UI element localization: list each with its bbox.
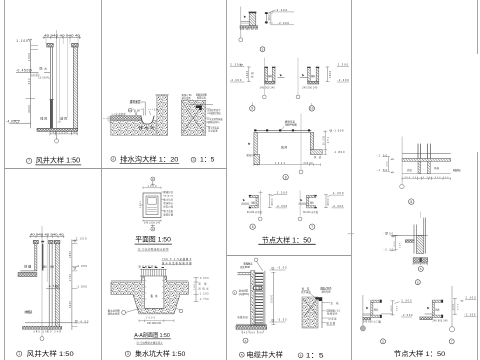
P7a node circle: [400, 184, 404, 188]
P6 boxed label: [254, 286, 262, 289]
svg-text:40 940 40 940 40: 40 940 40 940 40: [44, 33, 81, 37]
P2 title circle 3: [191, 157, 196, 162]
P7d left arm stipple: [420, 317, 433, 320]
P2 slope leader lines: [136, 111, 150, 115]
svg-text:6: 6: [420, 267, 422, 271]
svg-text:-0.050: -0.050: [199, 278, 210, 280]
P3e right wall: [256, 198, 258, 206]
svg-text:6: 6: [300, 354, 302, 358]
P3a right bracket vline: [265, 12, 267, 24]
P7 label circle 5 mid: [415, 280, 420, 285]
P3c U channel walls: [308, 67, 311, 81]
svg-text:风井: 风井: [434, 166, 440, 170]
svg-text:2.300: 2.300: [333, 191, 344, 195]
svg-text:-0.05: -0.05: [277, 267, 287, 270]
P5b grate bolts: [143, 267, 164, 269]
svg-text:排风: 排风: [40, 116, 47, 121]
P3d annotation leader: [281, 127, 284, 131]
P6b stipple block: [302, 297, 318, 328]
svg-text:5500: 5500: [270, 294, 273, 303]
P3c right U-channel left-floor line: [300, 77, 308, 79]
P2 extra leader: [134, 109, 144, 116]
svg-text:爬梯做法: 爬梯做法: [244, 261, 254, 265]
sheet border right upper: [477, 0, 479, 54]
P3f left wall: [307, 198, 309, 206]
P1 right wall hatched: [73, 47, 77, 130]
P3f A arrow: [300, 199, 302, 201]
P3d top beam squares: [254, 129, 310, 131]
svg-text:风井大样 1:50: 风井大样 1:50: [36, 156, 81, 165]
P3b left label circle: [250, 106, 255, 111]
P7c box left wall: [371, 302, 373, 315]
P7c left arm lines: [363, 313, 371, 315]
P6 ladder: [255, 272, 263, 325]
svg-text:6: 6: [252, 225, 254, 229]
svg-text:-1.500: -1.500: [333, 129, 344, 133]
svg-text:5: 5: [417, 281, 419, 285]
svg-text:-1.200: -1.200: [199, 294, 210, 296]
P5 inner square: [146, 196, 158, 215]
svg-text:抹防水砂浆: 抹防水砂浆: [108, 312, 121, 316]
svg-text:8: 8: [410, 200, 412, 204]
P7b label circle 6: [418, 266, 423, 271]
P4 partition dark: [42, 244, 44, 271]
P2 floor stipple band: [111, 120, 157, 135]
P7d box bottom bar: [432, 315, 442, 318]
svg-text:风井: 风井: [281, 146, 287, 150]
P5 section marker A bottom: [151, 225, 155, 227]
svg-text:2.300: 2.300: [466, 297, 477, 300]
svg-text:1.100: 1.100: [16, 39, 28, 43]
sheet border right lower: [477, 152, 479, 360]
P7a slab second line: [402, 158, 451, 160]
P1 mid tick: [26, 98, 35, 100]
P7d long vline: [451, 286, 453, 326]
P3e A arrow: [243, 199, 245, 201]
svg-text:-2.300: -2.300: [332, 204, 344, 208]
P7a slab hatch band: [402, 159, 451, 162]
P3f label circle 7: [310, 224, 315, 229]
P7d box left wall: [432, 302, 434, 315]
P7d dim vline: [454, 298, 456, 315]
P5 inner top rect: [148, 198, 156, 205]
P3a leader circle: [239, 38, 243, 42]
svg-text:700 X 1.5米钢箅子: 700 X 1.5米钢箅子: [162, 257, 192, 261]
P2b diagonals: [183, 103, 205, 134]
svg-text:600: 600: [394, 241, 396, 247]
svg-text:450: 450: [28, 78, 31, 85]
P3e left small node box top bar: [249, 195, 258, 197]
svg-text:A: A: [152, 177, 154, 181]
divider v2: [226, 0, 228, 360]
svg-text:88J8-56: 88J8-56: [164, 195, 174, 197]
P2b cover top line: [188, 103, 213, 105]
svg-text:2.300: 2.300: [401, 299, 412, 302]
P6 right wall line: [264, 271, 266, 326]
P7a wall pair 1 above: [417, 144, 419, 159]
P7c A arrow: [366, 307, 369, 310]
svg-text:8: 8: [285, 175, 287, 179]
P3b left dim vline: [248, 66, 250, 82]
svg-text:20, 3.20: 20, 3.20: [324, 135, 326, 145]
P3a floor hatch band: [240, 26, 258, 28]
P5 top dim: [143, 187, 161, 189]
P6b leader: [310, 294, 316, 299]
svg-text:1：5: 1：5: [306, 352, 324, 359]
svg-text:1：5: 1：5: [200, 157, 215, 164]
P3b left U caps: [265, 67, 268, 68]
P1 title underline: [35, 164, 81, 166]
P5 inner comb: [147, 208, 157, 212]
svg-text:4600: 4600: [272, 198, 274, 206]
svg-text:4600: 4600: [328, 198, 330, 206]
P5 right annotation rows: [161, 191, 164, 193]
svg-text:240 500 240: 240 500 240: [260, 88, 276, 90]
svg-text:-1.80: -1.80: [377, 169, 388, 172]
P7a slab top line: [402, 153, 451, 155]
svg-text:-2.10: -2.10: [384, 249, 394, 252]
svg-text:-1.750: -1.750: [199, 299, 210, 301]
P3f top bar: [307, 195, 316, 197]
svg-text:夹层: 夹层: [407, 168, 413, 172]
P6b black notch: [315, 297, 322, 301]
P2 channel bottom: [144, 122, 151, 125]
P3a label circle 5: [260, 47, 265, 52]
svg-text:3: 3: [127, 352, 129, 356]
svg-text:排烟: 排烟: [24, 264, 31, 269]
svg-text:7: 7: [451, 340, 453, 344]
P7c right floor line: [381, 313, 392, 315]
svg-text:1750: 1750: [69, 273, 72, 281]
P4 right wall hatched: [55, 244, 59, 327]
P1 level -0.450 line: [16, 72, 39, 74]
P7d dark caps: [441, 300, 443, 303]
svg-text:-2.300: -2.300: [337, 78, 349, 82]
P1 bottom slab: [37, 128, 78, 131]
P2 title circle 2: [111, 157, 116, 162]
P1 dim tick a: [31, 45, 38, 47]
P4 base top line: [25, 322, 72, 324]
P6 left wall stippled: [251, 271, 255, 328]
P3c label circle: [309, 106, 314, 111]
svg-text:-1.500: -1.500: [76, 284, 88, 288]
P3e bottom bar: [249, 206, 258, 208]
svg-text:-2.300: -2.300: [464, 313, 476, 316]
svg-text:i=1: i=1: [139, 109, 144, 111]
P7d box top bar: [432, 300, 442, 302]
P3d box top edge: [254, 130, 311, 132]
P7d left arm: [425, 313, 433, 315]
P2 annotation leader: [141, 102, 145, 116]
svg-text:注:①坑内壁抹防水砂浆: 注:①坑内壁抹防水砂浆: [138, 247, 169, 251]
P6 top leader circle: [254, 258, 258, 262]
svg-text:2.300: 2.300: [277, 8, 288, 12]
svg-text:1500: 1500: [27, 53, 31, 61]
P3b left U channel walls: [265, 67, 268, 81]
P5b concrete tub: [111, 276, 188, 314]
svg-text:风井大样 1:50: 风井大样 1:50: [27, 349, 74, 358]
P1 interior line a tick: [58, 121, 61, 123]
P7a center line: [401, 137, 403, 185]
svg-text:防火: 防火: [40, 65, 48, 70]
P1 partition top tick: [49, 98, 54, 100]
P5 left tick: [140, 204, 144, 206]
P7b break mark: [392, 236, 395, 237]
P7b floor line: [391, 234, 428, 236]
svg-text:i=1: i=1: [148, 109, 153, 111]
P3e left arm lines: [241, 202, 249, 204]
svg-text:-5.55: -5.55: [277, 318, 287, 321]
P5 plan title underline: [135, 243, 172, 245]
svg-text:9: 9: [251, 107, 253, 111]
P3c dim vline: [327, 66, 329, 82]
svg-text:2650: 2650: [69, 250, 72, 258]
svg-text:600: 600: [457, 303, 459, 310]
P4 bottom dim ticks: [37, 330, 61, 333]
P1 interior line b: [67, 38, 69, 118]
P5b right dim stack: [195, 277, 197, 302]
P1 level 1.100 mark: [28, 39, 31, 42]
svg-text:排水沟大样 1：20: 排水沟大样 1：20: [120, 154, 179, 163]
P2 left dim small: [109, 116, 111, 124]
P3f bottom bar: [307, 206, 316, 208]
P3d bottom dim: [254, 164, 321, 166]
svg-text:2: 2: [112, 157, 114, 161]
P3a wall hatched: [249, 12, 256, 25]
P4 second line: [46, 237, 48, 282]
svg-text:电缆井大样: 电缆井大样: [246, 350, 283, 359]
P7a wall pair 2 above: [426, 144, 428, 159]
svg-text:300 300: 300 300: [414, 262, 428, 264]
sheet border left: [4, 0, 6, 360]
svg-text:900 240 60 240 900 240: 900 240 60 240 900 240: [405, 177, 450, 179]
svg-text:防水砂浆: 防水砂浆: [239, 288, 249, 292]
divider v1: [101, 0, 103, 360]
P4 center line: [41, 226, 43, 336]
P7c left arm stipple: [363, 317, 371, 320]
svg-text:-1.50: -1.50: [384, 233, 394, 236]
P4 partition cap mark: [41, 241, 44, 243]
P3a floor lines left: [241, 21, 249, 23]
P5 bottom dim: [143, 220, 161, 222]
P4 right dim ticks: [72, 241, 78, 327]
svg-text:电缆夹层: 电缆夹层: [237, 315, 248, 319]
svg-text:240 600 240: 240 600 240: [242, 331, 264, 334]
P7c gray node circle: [360, 326, 365, 331]
svg-text:4600: 4600: [269, 14, 271, 21]
P4 title circle: [17, 351, 22, 356]
svg-text:排烟道: 排烟道: [24, 309, 32, 314]
P4 top dim ticks: [31, 235, 64, 238]
P1 bottom dim ticks: [50, 133, 78, 136]
P6 left annotation circle: [233, 291, 237, 295]
P4 top dim line: [29, 236, 65, 238]
P5b slab finish lines: [111, 280, 142, 282]
svg-text:注:①坑壁防水做法同上: 注:①坑壁防水做法同上: [137, 341, 164, 345]
P1 level -4.05 line: [9, 122, 31, 124]
svg-text:-1.800: -1.800: [333, 150, 345, 154]
divider h1: [5, 168, 227, 170]
P5b right small circle: [179, 309, 183, 313]
svg-text:C0.000AL: C0.000AL: [38, 77, 51, 80]
svg-text:2.200: 2.200: [76, 237, 87, 241]
P7a label circle 8: [409, 199, 414, 204]
P3b left center line + node: [263, 58, 265, 95]
P2b black angle: [196, 105, 202, 110]
svg-text:3450: 3450: [69, 300, 72, 308]
svg-text:(内掺5%): (内掺5%): [239, 292, 250, 296]
svg-text:建筑面层: 建筑面层: [130, 99, 141, 104]
P3d left wall hatch: [254, 133, 257, 155]
P6b right leaders: [322, 301, 330, 303]
svg-text:角钢∠50×5: 角钢∠50×5: [320, 286, 332, 290]
P3a dim vline: [270, 13, 272, 24]
P3d right dim vline: [324, 131, 326, 155]
P2 channel left edge: [141, 116, 144, 124]
P5b grate: [140, 268, 167, 270]
P1 left wall lines: [49, 47, 51, 128]
P1 right wall cap: [72, 43, 79, 47]
svg-text:4: 4: [245, 339, 247, 343]
P7b wall pair tall: [423, 218, 425, 254]
P6 label circle 4: [243, 338, 248, 343]
svg-text:4600: 4600: [453, 303, 455, 310]
P6 base lines: [236, 323, 267, 325]
divider v3: [351, 0, 353, 360]
svg-text:240 500 240: 240 500 240: [302, 88, 318, 90]
P7d label circle 7: [449, 339, 454, 344]
P1 top dim line: [43, 37, 82, 39]
P3f vline + node: [299, 191, 301, 216]
P3d right arm hatch: [310, 150, 322, 155]
svg-text:集水坑盖板配筋详图: 集水坑盖板配筋详图: [162, 261, 192, 265]
P1 level -4.05 mark: [15, 120, 20, 123]
P7d A arrow: [427, 307, 430, 310]
svg-text:240 60: 240 60: [304, 163, 314, 165]
P2 title underline: [120, 162, 180, 164]
P1 center line: [56, 30, 58, 140]
P4 left step lines: [20, 270, 34, 272]
P3a A arrow: [244, 16, 246, 19]
P7c box bottom bar: [371, 315, 382, 318]
P2b right leaders and texts: [206, 108, 211, 110]
P7a left dim vline: [388, 157, 390, 172]
P3f dim vline: [325, 194, 327, 208]
P2 stipple top ticks: [155, 94, 169, 96]
svg-text:-2.300: -2.300: [276, 204, 288, 208]
P3e dim vline: [269, 194, 271, 208]
P7a bottom dim: [402, 178, 451, 180]
P3d right wall hatch: [310, 133, 313, 150]
P3e dark caps: [249, 195, 251, 196]
P4 right dim line: [71, 240, 73, 331]
P1 node circle: [55, 139, 59, 143]
P1 level -0.450 mark: [29, 70, 32, 73]
P3f right small node arm lines: [299, 202, 307, 204]
svg-text:7: 7: [28, 159, 30, 163]
P3a level 2.300: [268, 10, 276, 14]
svg-text:风井: 风井: [268, 74, 273, 78]
P7b wall hatch below: [417, 236, 424, 254]
svg-text:详见 88J8: 详见 88J8: [240, 265, 251, 269]
svg-text:150: 150: [108, 116, 110, 122]
P7c dark caps: [380, 300, 382, 303]
P6 left arm slab: [237, 271, 250, 273]
svg-text:1150: 1150: [194, 283, 196, 290]
P3d A arrow left: [248, 143, 251, 146]
P7a walls below slab hatched: [418, 161, 421, 173]
P7d open node circle: [449, 327, 454, 332]
svg-text:4600: 4600: [391, 305, 393, 312]
svg-text:集水: 集水: [151, 294, 158, 298]
P1 partition dark lower: [51, 100, 53, 129]
svg-text:A: A: [152, 227, 154, 231]
P1 top dim ticks: [44, 36, 80, 39]
svg-text:集水坑大样 1:50: 集水坑大样 1:50: [135, 349, 186, 358]
P3d center line + node: [300, 114, 302, 170]
svg-text:240 1000 240: 240 1000 240: [50, 131, 78, 134]
P5 outer square: [143, 193, 161, 218]
svg-text:-1.50: -1.50: [377, 154, 388, 157]
svg-text:2.300: 2.300: [277, 190, 288, 194]
P4 left step slab stipple: [18, 272, 37, 276]
P3 title underline: [258, 243, 315, 245]
svg-text:10: 10: [310, 107, 314, 111]
P1 small tick row: [31, 75, 39, 77]
svg-text:3: 3: [193, 158, 195, 162]
svg-text:2.300: 2.300: [230, 62, 241, 66]
P7b bottom dim: [413, 263, 428, 265]
svg-text:-2.300: -2.300: [230, 78, 242, 82]
P3b left right-floor line: [278, 77, 285, 79]
P6 right dim vline: [272, 272, 274, 325]
svg-text:120: 120: [399, 242, 401, 248]
P7c label circle 5: [381, 339, 386, 344]
svg-text:节点大样 1：50: 节点大样 1：50: [394, 349, 446, 358]
P2b right 1:5 detail stipple block: [181, 100, 205, 135]
P3a leader vline: [240, 7, 242, 38]
P3a bracket squares: [265, 12, 268, 14]
P3e label circle 6: [250, 224, 255, 229]
P1 bottom dim line: [50, 133, 78, 135]
divider h2: [227, 255, 352, 257]
svg-text:4600: 4600: [329, 70, 332, 78]
svg-text:-4.05: -4.05: [6, 119, 15, 123]
P1 left outer wall / dim line: [30, 42, 32, 128]
P2b top leader: [192, 100, 197, 106]
svg-text:240 1000 240: 240 1000 240: [147, 323, 162, 325]
svg-text:5: 5: [382, 340, 384, 344]
P6 base slab crosshatch: [236, 326, 267, 329]
svg-text:2.300: 2.300: [338, 62, 349, 66]
svg-text:1000: 1000: [140, 200, 142, 208]
P3e right vline: [260, 191, 262, 216]
svg-text:4000: 4000: [27, 105, 31, 113]
svg-text:平面图 1:50: 平面图 1:50: [135, 235, 171, 243]
P5 main title circle: [125, 351, 130, 356]
svg-text:300: 300: [387, 161, 389, 167]
P3d left wall footing: [254, 155, 260, 165]
P7c box top bar: [371, 300, 382, 302]
svg-text:240 100 60 20: 240 100 60 20: [240, 29, 259, 31]
svg-text:风井: 风井: [311, 74, 316, 78]
P1 step tick: [44, 71, 50, 73]
P7b wall pair short: [413, 225, 415, 254]
svg-text:240 1000 240: 240 1000 240: [144, 223, 161, 225]
P7b center thin line: [419, 212, 421, 219]
P2 channel cut: [141, 116, 154, 124]
P2 floor finish band: [111, 116, 142, 121]
